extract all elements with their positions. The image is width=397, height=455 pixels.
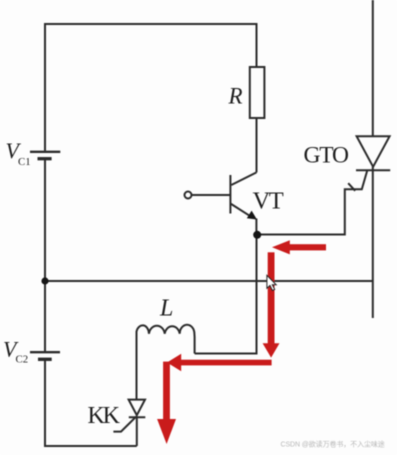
svg-text:C2: C2	[16, 353, 29, 365]
svg-text:GTO: GTO	[304, 143, 349, 169]
svg-text:CSDN @欲读万卷书，不入尘味途: CSDN @欲读万卷书，不入尘味途	[281, 440, 385, 449]
svg-text:KK: KK	[88, 403, 121, 429]
svg-text:L: L	[159, 295, 173, 321]
svg-text:C1: C1	[18, 156, 31, 168]
svg-text:VT: VT	[253, 188, 284, 215]
svg-text:R: R	[228, 83, 243, 108]
